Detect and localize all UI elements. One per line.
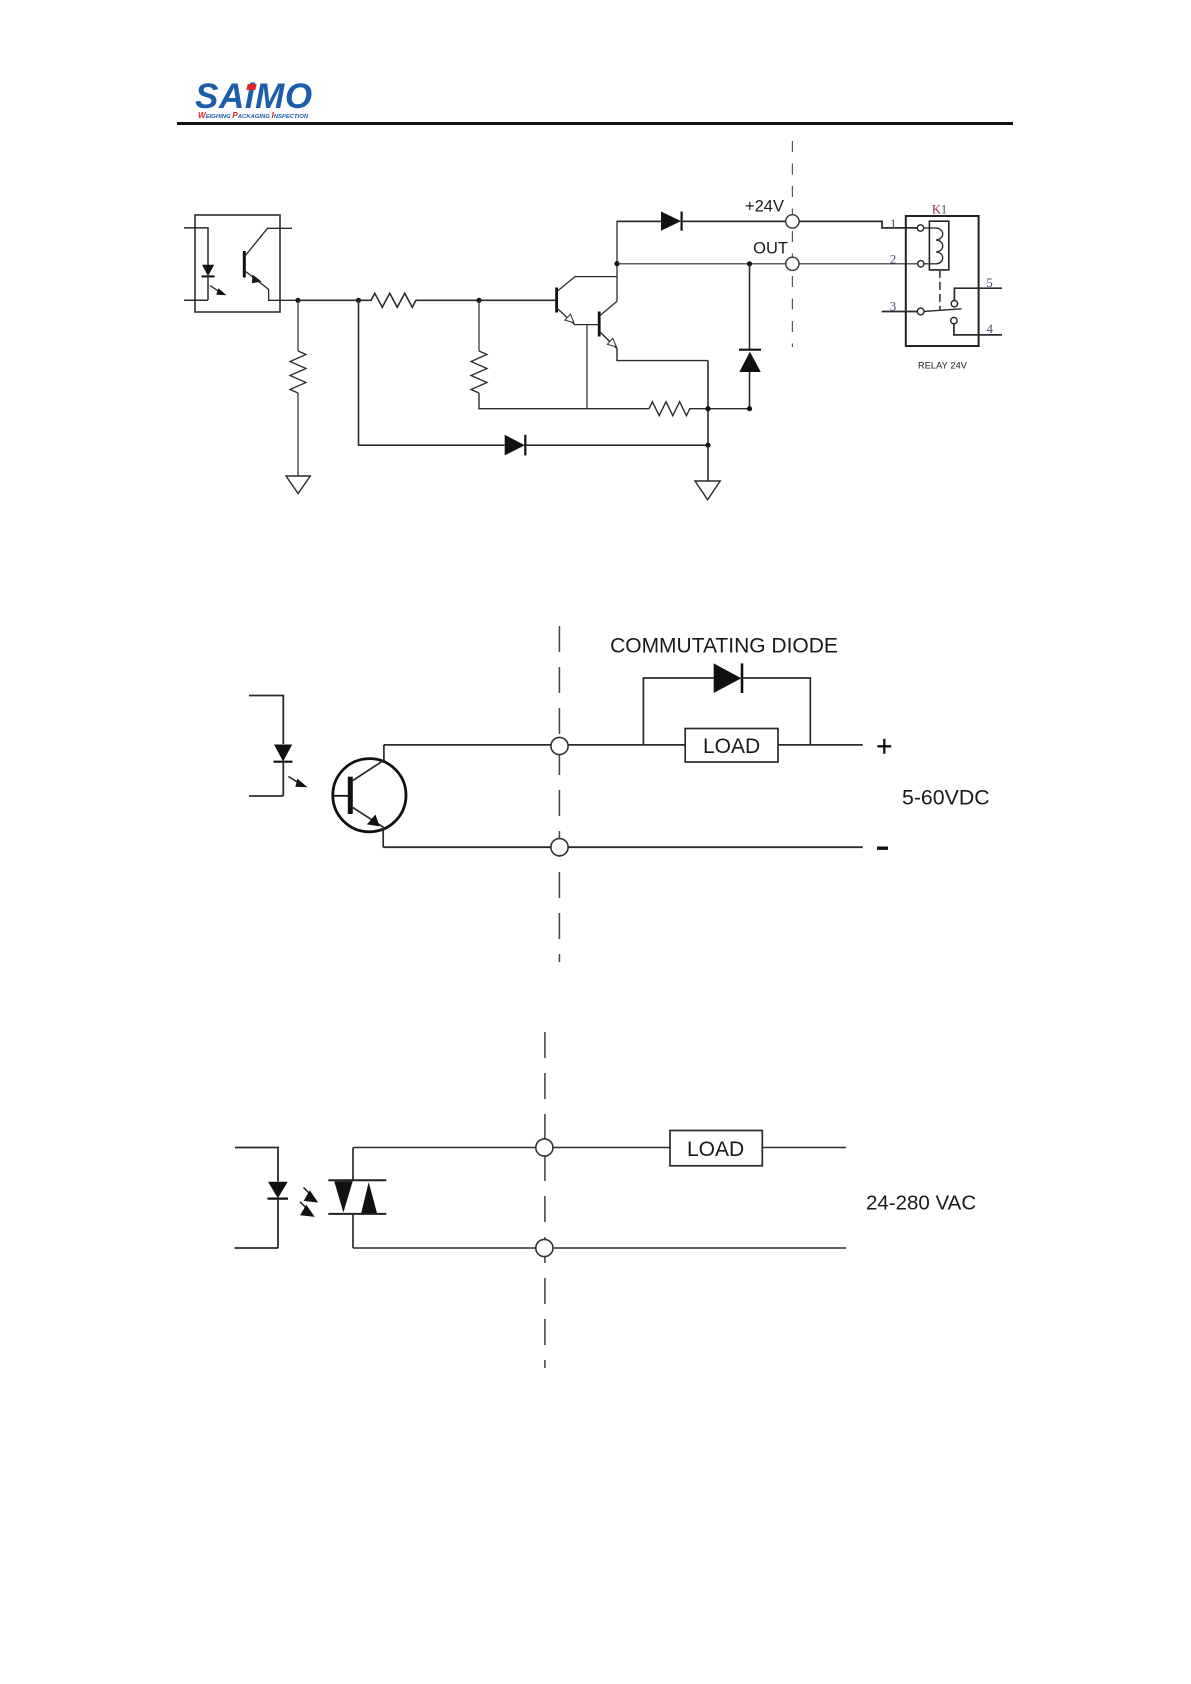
relay contact 5 circle bbox=[951, 301, 957, 307]
wire top rail 3 bbox=[353, 1147, 670, 1149]
terminal +24V bbox=[786, 215, 799, 228]
relay pin 2 circle bbox=[918, 261, 924, 267]
wire pin1 to coil bbox=[924, 227, 936, 229]
diode D2 bbox=[505, 435, 525, 456]
dashed boundary line 1 bbox=[791, 141, 793, 347]
svg-text:RELAY 24V: RELAY 24V bbox=[918, 361, 968, 371]
phototransistor emitter bbox=[245, 271, 298, 300]
phototransistor emitter arrow bbox=[252, 275, 262, 284]
svg-text:2: 2 bbox=[890, 252, 897, 267]
transistor Q3 base wire bbox=[333, 795, 348, 797]
resistor R1 lower lead bbox=[297, 393, 299, 476]
wire emitter to - rail bbox=[383, 846, 863, 848]
svg-text:+24V: +24V bbox=[745, 198, 784, 216]
transistor Q3 collector bbox=[353, 745, 384, 781]
label minus bbox=[877, 847, 888, 850]
resistor R3 lead from node C bbox=[478, 300, 480, 351]
svg-text:3: 3 bbox=[890, 299, 897, 314]
wire U1 cathode stub bbox=[184, 299, 208, 301]
relay pin 3 circle bbox=[917, 308, 924, 315]
wire pin2 to coil bbox=[924, 263, 936, 265]
light arrow 3b bbox=[300, 1202, 308, 1210]
node D3 junction dot bbox=[747, 261, 752, 266]
label plus bbox=[877, 739, 891, 754]
transistor Q3 emitter arrow bbox=[367, 815, 380, 827]
commutating diode branch left leg bbox=[643, 678, 713, 745]
SAIMO logo bbox=[195, 79, 313, 114]
LED 3 bbox=[268, 1182, 288, 1199]
terminal 2 bottom bbox=[551, 839, 568, 856]
svg-text:OUT: OUT bbox=[753, 240, 788, 258]
wire +24V to relay pin1 bbox=[799, 221, 917, 228]
LED 2 anode stub bbox=[249, 696, 283, 745]
svg-text:1: 1 bbox=[890, 216, 897, 231]
wire OUT rail bbox=[617, 263, 786, 265]
diode D3 bbox=[739, 352, 761, 372]
transistor Q3 emitter bbox=[353, 808, 383, 848]
LED 3 anode stub bbox=[235, 1148, 278, 1182]
transistor Q2 collector bbox=[600, 301, 618, 316]
light arrow U1 bbox=[210, 286, 219, 292]
terminal 3 top bbox=[536, 1139, 553, 1156]
logo tagline bbox=[198, 111, 308, 120]
svg-text:4: 4 bbox=[987, 321, 994, 336]
wire collector to + rail bbox=[384, 744, 863, 746]
LOAD box 3 bbox=[670, 1131, 762, 1166]
diode D3 cathode bar bbox=[739, 349, 761, 351]
phototransistor collector bbox=[245, 228, 292, 256]
svg-text:COMMUTATING DIODE: COMMUTATING DIODE bbox=[610, 634, 838, 657]
wire U1 anode stub bbox=[184, 228, 208, 265]
terminal OUT bbox=[786, 257, 799, 270]
node A junction dot bbox=[295, 298, 300, 303]
wire collector rail up bbox=[616, 221, 618, 302]
wire top rail 3 right bbox=[762, 1147, 846, 1149]
svg-text:5: 5 bbox=[986, 275, 993, 290]
node B junction dot bbox=[356, 298, 361, 303]
node OUT junction dot bbox=[614, 261, 619, 266]
triac top bar bbox=[328, 1179, 386, 1181]
wire relay pin3 stub bbox=[882, 311, 918, 313]
transistor Q2 emitter arrow bbox=[607, 338, 616, 347]
triac bottom bar bbox=[328, 1213, 386, 1215]
relay contact 4 circle bbox=[951, 317, 957, 323]
node C junction dot bbox=[476, 298, 481, 303]
wire contact 5 out bbox=[954, 288, 1002, 300]
LED 2 cathode stub bbox=[249, 795, 283, 797]
wire top rail to diode D1 bbox=[617, 220, 661, 222]
relay pin 1 circle bbox=[917, 225, 923, 231]
commutating diode D4 bbox=[714, 663, 742, 693]
optocoupler U1 box bbox=[195, 215, 280, 312]
wire node D to ground bbox=[707, 445, 709, 481]
svg-text:5-60VDC: 5-60VDC bbox=[902, 786, 990, 810]
wire contact 4 out bbox=[954, 324, 1002, 335]
svg-text:LOAD: LOAD bbox=[703, 735, 760, 758]
dashed boundary line 2 bbox=[558, 626, 560, 962]
wire emitter down to node D bbox=[707, 361, 709, 446]
ground 1 bbox=[286, 476, 310, 494]
terminal 3 bottom bbox=[536, 1239, 553, 1256]
resistor R2 (series base) bbox=[359, 293, 480, 307]
wire B down to diode D2 line bbox=[359, 300, 505, 445]
transistor Q3 circle bbox=[333, 759, 406, 832]
diode D3 cathode lead bbox=[749, 264, 751, 350]
LOAD box 2 bbox=[685, 729, 778, 763]
triac right thyristor bbox=[361, 1182, 377, 1213]
triac left thyristor bbox=[334, 1181, 353, 1212]
triac bottom lead bbox=[352, 1214, 354, 1248]
relay K1 box bbox=[906, 216, 979, 346]
relay coil box bbox=[929, 221, 948, 270]
relay actuator dashed link bbox=[939, 270, 941, 310]
phototransistor in U1 base bar bbox=[243, 251, 246, 278]
svg-text:24-280 VAC: 24-280 VAC bbox=[866, 1192, 976, 1215]
node D junction dot bbox=[705, 443, 710, 448]
wire D2 to node E bbox=[525, 444, 708, 446]
dashed boundary line 3 bbox=[544, 1032, 546, 1368]
svg-text:LOAD: LOAD bbox=[687, 1138, 744, 1161]
resistor R3 lower lead to bottom rail bbox=[479, 393, 649, 409]
terminal 2 top bbox=[551, 737, 568, 754]
resistor R1 lead bbox=[297, 300, 299, 351]
relay coil K1 bbox=[936, 228, 943, 264]
light arrow 3a bbox=[304, 1188, 312, 1196]
wire C to Q1 base bbox=[479, 299, 555, 301]
header rule bbox=[177, 122, 1013, 125]
node D3-R4 corner dot bbox=[747, 406, 752, 411]
wire D1 to +24V terminal bbox=[682, 220, 786, 222]
svg-text:K1: K1 bbox=[932, 203, 947, 217]
diode D3 anode lead bbox=[749, 372, 751, 409]
transistor Q1 base bar bbox=[555, 288, 558, 313]
wire A-B bbox=[298, 299, 359, 301]
diode D1 bbox=[661, 212, 681, 231]
transistor Q1 collector bbox=[557, 277, 617, 292]
transistor Q1 emitter bbox=[557, 308, 599, 325]
commutating diode branch right leg bbox=[742, 678, 810, 745]
resistor R4 (emitter-base) bbox=[649, 402, 750, 416]
LED 3 cathode stub bbox=[235, 1247, 279, 1249]
wire OUT to relay pin2 bbox=[799, 263, 918, 265]
node R4-emitter junction dot bbox=[705, 406, 710, 411]
LED in U1 bbox=[202, 265, 214, 276]
light arrow 2 bbox=[288, 777, 299, 784]
resistor R3 bbox=[471, 351, 487, 393]
ground 2 bbox=[695, 481, 720, 500]
wire Q1 emitter to bottom rail bbox=[586, 325, 588, 409]
transistor Q2 base bar bbox=[598, 312, 601, 337]
transistor Q3 base bar bbox=[348, 777, 353, 814]
resistor R1 bbox=[290, 351, 306, 393]
wire bottom rail 3 bbox=[353, 1247, 846, 1249]
triac top lead bbox=[352, 1148, 354, 1181]
transistor Q2 emitter bbox=[600, 332, 709, 361]
transistor Q1 emitter arrow bbox=[565, 314, 574, 322]
LED 2 bbox=[274, 745, 292, 762]
relay switch arm bbox=[924, 309, 961, 312]
